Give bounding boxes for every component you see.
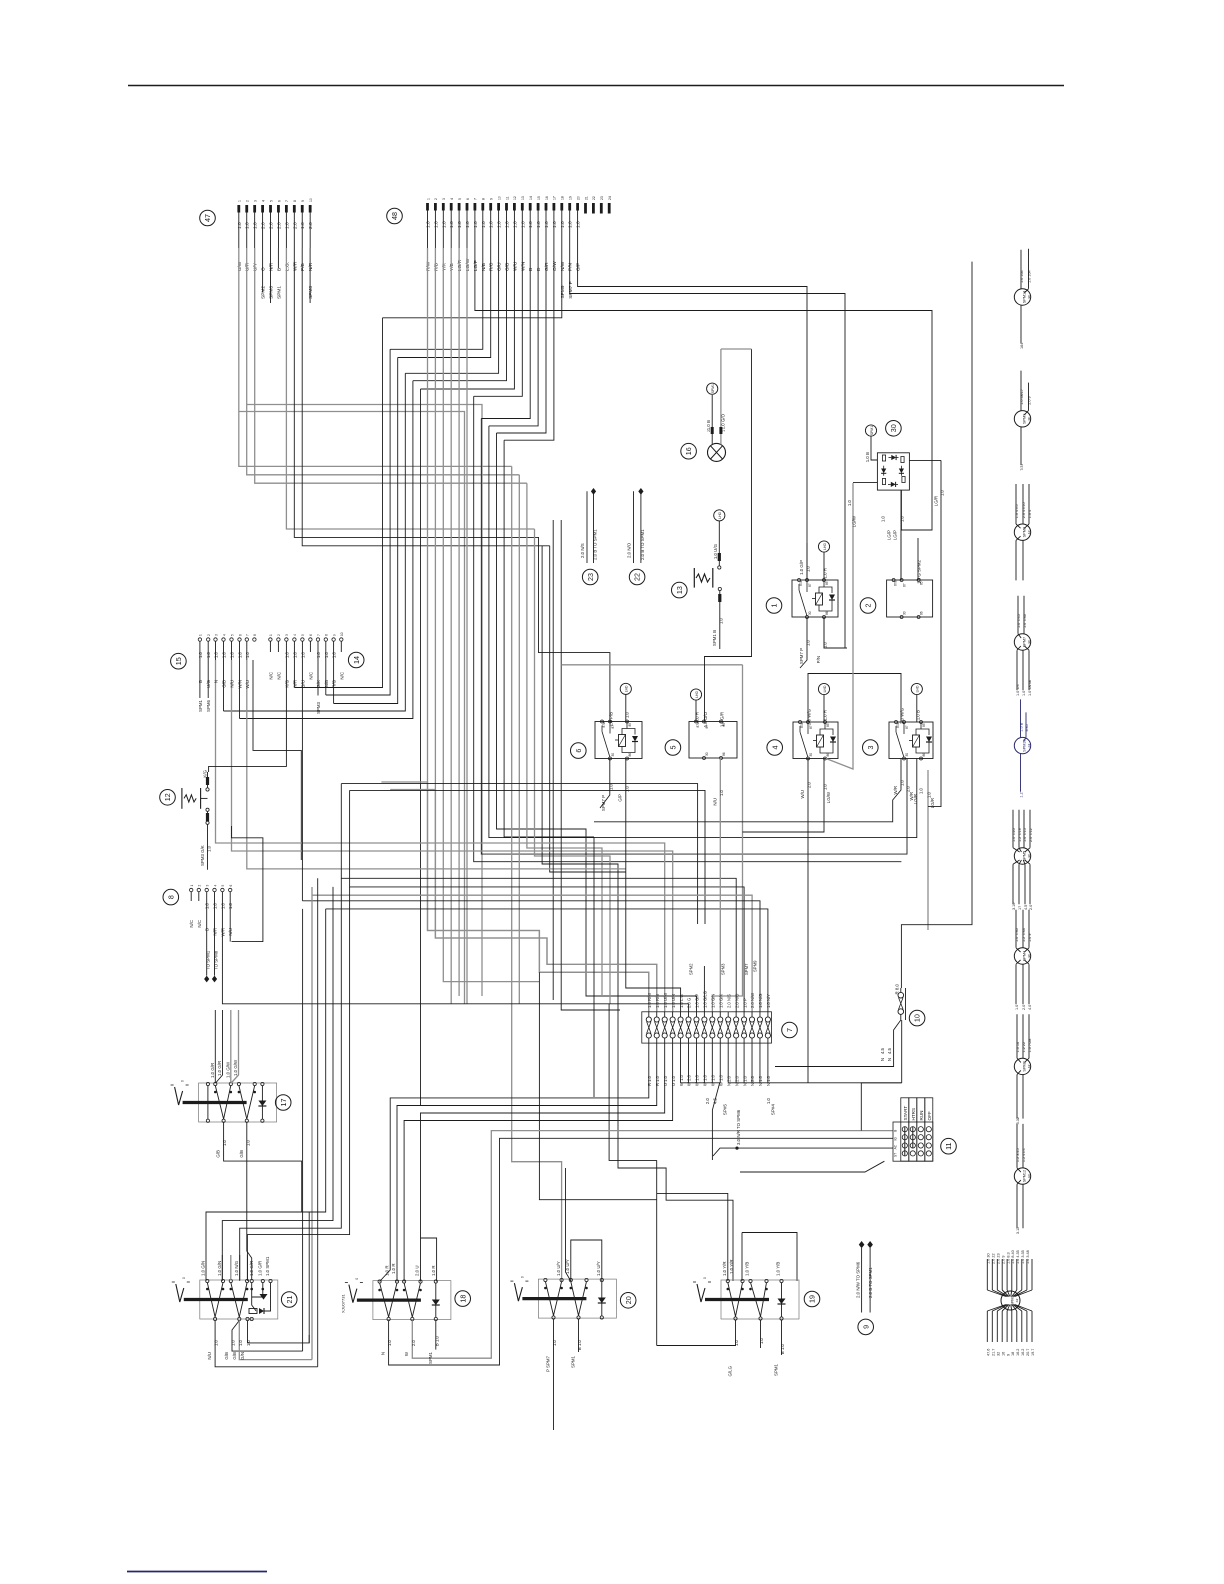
ground 12 jog wire down	[232, 826, 263, 942]
nested loops mid-left going to switches	[341, 784, 697, 924]
svg-text:2.0 U: 2.0 U	[415, 1266, 420, 1277]
svg-text:1.0: 1.0	[220, 902, 225, 909]
svg-text:1.0: 1.0	[316, 651, 321, 658]
svg-text:5: 5	[669, 746, 678, 750]
svg-text:1.0: 1.0	[734, 1339, 739, 1346]
svg-text:1.0 3.48: 1.0 3.48	[1026, 1250, 1030, 1264]
link 9 stubs	[858, 1319, 874, 1335]
svg-text:SPM1: SPM1	[428, 1351, 433, 1364]
svg-text:B 1.0: B 1.0	[780, 1343, 785, 1354]
relay 3 bottom leads W/R	[594, 759, 901, 822]
svg-text:1.0 G SPM2: 1.0 G SPM2	[917, 559, 922, 583]
svg-text:1.0: 1.0	[718, 617, 723, 624]
svg-text:3.0 N/R TO SPM6: 3.0 N/R TO SPM6	[736, 1109, 741, 1145]
connector 14	[348, 652, 364, 668]
svg-text:1.0: 1.0	[576, 221, 582, 228]
svg-text:87: 87	[808, 583, 812, 587]
svg-text:10: 10	[913, 1014, 922, 1022]
svg-text:1.0: 1.0	[457, 221, 463, 228]
svg-text:6: 6	[466, 198, 470, 200]
svg-text:1.0: 1.0	[441, 221, 447, 228]
fuse strip 7 fuse elements	[646, 1017, 651, 1022]
svg-text:2.0: 2.0	[906, 785, 911, 792]
svg-text:G/K: G/K	[316, 680, 321, 688]
bundle slot 6	[428, 248, 649, 1012]
svg-text:1.0: 1.0	[206, 651, 211, 658]
svg-text:1: 1	[190, 885, 194, 887]
svg-text:13: 13	[675, 586, 684, 594]
svg-text:O: O	[261, 267, 267, 271]
svg-text:1.0 G/N: 1.0 G/N	[711, 994, 716, 1008]
svg-text:7: 7	[317, 634, 321, 636]
svg-text:2: 2	[864, 604, 873, 608]
svg-text:LHD: LHD	[718, 511, 722, 518]
svg-text:20: 20	[624, 1296, 633, 1304]
svg-text:17: 17	[279, 1099, 288, 1107]
svg-text:1.0: 1.0	[900, 779, 905, 786]
svg-text:13: 13	[521, 196, 525, 200]
svg-text:1.0 Y/B: 1.0 Y/B	[745, 1262, 750, 1276]
svg-text:1.0: 1.0	[927, 791, 932, 798]
svg-text:10: 10	[497, 196, 501, 200]
svg-text:1.2 47/4: 1.2 47/4	[1022, 1148, 1026, 1162]
svg-text:START: START	[903, 1106, 908, 1121]
svg-text:3: 3	[285, 634, 289, 636]
wire 48-18 N/W into bundle	[383, 248, 562, 318]
svg-text:8: 8	[325, 634, 329, 636]
svg-text:5: 5	[458, 198, 462, 200]
relay 2 top lead LG/P	[900, 490, 902, 580]
svg-text:1.0 7/45: 1.0 7/45	[1017, 614, 1021, 628]
svg-text:2.0 G: 2.0 G	[687, 998, 692, 1008]
wire 48-8 N/B into bundle	[390, 248, 483, 349]
svg-text:85: 85	[825, 581, 829, 585]
svg-text:1.0: 1.0	[332, 651, 337, 658]
svg-text:Y/R: Y/R	[441, 262, 447, 271]
svg-text:W 1.0: W 1.0	[711, 1074, 716, 1086]
svg-text:1.0: 1.0	[253, 222, 259, 229]
svg-text:1.0 U/R: 1.0 U/R	[671, 994, 676, 1008]
bundle slot 14	[489, 426, 917, 838]
svg-text:SPM7 P: SPM7 P	[568, 281, 574, 299]
svg-text:R/W: R/W	[426, 261, 432, 271]
svg-text:N 1.0: N 1.0	[742, 1075, 747, 1086]
svg-text:1.0 7/20: 1.0 7/20	[1012, 828, 1016, 842]
svg-text:1.0: 1.0	[940, 489, 945, 496]
link 22	[629, 569, 645, 585]
svg-text:1.0 SPM1: 1.0 SPM1	[265, 1256, 270, 1276]
svg-text:1: 1	[199, 634, 203, 636]
svg-text:SPM4: SPM4	[1022, 951, 1026, 961]
switch 21 diode branch	[252, 1283, 256, 1311]
svg-text:SPM7: SPM7	[744, 963, 749, 975]
svg-text:1.0 G/K: 1.0 G/K	[718, 994, 723, 1008]
splice SPM4	[1014, 948, 1030, 964]
ignition bottom-left diagonal	[740, 1161, 884, 1172]
svg-text:1.0 3.35: 1.0 3.35	[1021, 1250, 1025, 1264]
splice SPM13	[1014, 289, 1030, 305]
svg-text:1.0: 1.0	[292, 651, 297, 658]
svg-text:7: 7	[474, 198, 478, 200]
svg-text:3: 3	[442, 198, 446, 200]
switch 18	[349, 1285, 357, 1303]
bundle slot 11	[466, 248, 468, 1004]
ground 12 upper connector	[201, 797, 208, 799]
wire from 775 down	[774, 1066, 776, 1068]
svg-text:47.6: 47.6	[987, 1349, 991, 1356]
svg-text:U/G: U/G	[206, 679, 211, 687]
svg-text:HTRS: HTRS	[911, 1108, 916, 1121]
svg-text:0: 0	[182, 1277, 186, 1279]
svg-text:1.0: 1.0	[719, 789, 724, 796]
relay 1 top leads	[806, 543, 808, 580]
svg-text:B: B	[205, 928, 210, 931]
svg-text:Y/B: Y/B	[449, 263, 455, 271]
splice SPM9	[1014, 411, 1030, 427]
svg-text:4.0: 4.0	[1028, 1005, 1032, 1010]
svg-text:N: N	[880, 1058, 885, 1061]
wire 47-2 U/R	[247, 248, 520, 475]
svg-text:3: 3	[214, 634, 218, 636]
wire 47-9 P/B	[302, 248, 550, 546]
svg-text:1.0 48/38: 1.0 48/38	[1028, 680, 1032, 696]
svg-text:6: 6	[229, 885, 233, 887]
bundle slot 19	[527, 483, 602, 996]
splice SPM8	[1014, 524, 1030, 540]
svg-text:2.0: 2.0	[411, 1339, 416, 1346]
svg-text:4.5: 4.5	[880, 1047, 885, 1054]
svg-text:K/G: K/G	[203, 769, 208, 777]
svg-text:2.0 7/12: 2.0 7/12	[1029, 828, 1033, 842]
fusible link 10 lower wires	[775, 1014, 901, 1066]
wire 47-10 N/R stub SPM8	[309, 248, 311, 303]
svg-text:4dr: 4dr	[1027, 854, 1031, 858]
svg-text:N/R: N/R	[308, 262, 314, 271]
svg-text:N/C: N/C	[268, 672, 273, 680]
svg-text:N/C: N/C	[276, 672, 281, 680]
svg-text:1.0 8.40: 1.0 8.40	[1011, 1250, 1015, 1264]
svg-text:2.0 B TO SPM1: 2.0 B TO SPM1	[868, 1267, 873, 1298]
svg-text:85: 85	[826, 723, 830, 727]
svg-text:LHD: LHD	[695, 691, 699, 698]
svg-text:14: 14	[352, 656, 361, 664]
svg-text:R 1.0: R 1.0	[647, 1075, 652, 1086]
svg-text:30: 30	[808, 611, 812, 615]
bundle slot 21	[542, 546, 733, 1281]
svg-text:N/W: N/W	[560, 261, 566, 271]
svg-text:30: 30	[809, 753, 813, 757]
svg-text:2.0: 2.0	[1022, 1005, 1026, 1010]
svg-text:SPM12: SPM12	[1022, 1170, 1026, 1182]
connector 8 W/R long wire	[222, 910, 688, 1012]
svg-text:18: 18	[458, 1295, 467, 1303]
svg-text:1.0: 1.0	[231, 1339, 236, 1346]
extra verticals flanking relay 6	[552, 520, 554, 1000]
svg-text:8: 8	[482, 198, 486, 200]
svg-text:G/B: G/B	[224, 1352, 229, 1360]
svg-text:1.0 G/W: 1.0 G/W	[225, 1061, 230, 1078]
relay 6 (leftmost)	[595, 722, 642, 759]
svg-text:1.0: 1.0	[624, 785, 629, 792]
svg-text:N/C: N/C	[189, 920, 194, 928]
svg-text:N/U: N/U	[713, 798, 718, 806]
svg-text:1.0 U/W: 1.0 U/W	[663, 993, 668, 1008]
svg-text:2.0 N/O: 2.0 N/O	[627, 542, 632, 558]
svg-text:9: 9	[861, 1325, 870, 1329]
svg-text:1.0: 1.0	[489, 221, 495, 228]
link 23	[582, 569, 598, 585]
module 30 bottom-right lead LG/P down to relay2	[900, 490, 902, 530]
relay 1 LHD circle	[818, 541, 829, 552]
svg-text:LG/R: LG/R	[457, 259, 463, 271]
svg-text:1.0 164: 1.0 164	[1020, 270, 1024, 283]
svg-text:1.0 U/Y: 1.0 U/Y	[556, 1261, 561, 1276]
svg-text:4dr: 4dr	[1027, 640, 1031, 644]
svg-text:B: B	[528, 268, 534, 271]
bundle slot 7	[435, 248, 656, 1012]
svg-text:1.0: 1.0	[568, 221, 574, 228]
svg-text:2.0 N/W TO SPM6: 2.0 N/W TO SPM6	[856, 1261, 861, 1298]
svg-text:8: 8	[293, 200, 297, 202]
svg-text:22: 22	[592, 196, 596, 200]
resistor 13 lower wire with connector	[718, 587, 721, 590]
relay 2 85 stub G SPM2	[917, 538, 919, 580]
svg-text:1.0: 1.0	[536, 221, 542, 228]
svg-text:1.0: 1.0	[919, 787, 924, 794]
svg-text:9/85: 9/85	[1025, 724, 1029, 731]
wire 47-1 U/W	[239, 248, 512, 466]
splice SPM7	[1014, 634, 1030, 650]
bundle slot 5	[420, 389, 422, 1106]
svg-text:1.0: 1.0	[246, 1339, 251, 1346]
svg-text:4: 4	[222, 634, 226, 636]
svg-text:19.7: 19.7	[1031, 1349, 1035, 1356]
svg-text:SPM1: SPM1	[1010, 1295, 1014, 1305]
gray feeds across middle	[216, 660, 665, 1012]
svg-text:1.0 G/LG: 1.0 G/LG	[703, 991, 708, 1008]
svg-text:SPM8: SPM8	[308, 286, 314, 299]
svg-text:1.0 164: 1.0 164	[1028, 270, 1032, 283]
svg-text:SPM9: SPM9	[1022, 414, 1026, 424]
svg-text:2.0 B TO SPM1: 2.0 B TO SPM1	[640, 529, 645, 560]
svg-text:2.0 9: 2.0 9	[1028, 396, 1032, 404]
svg-text:W/U: W/U	[245, 680, 250, 689]
svg-text:LG/R: LG/R	[913, 794, 918, 804]
svg-text:1: 1	[238, 200, 242, 202]
svg-text:7: 7	[285, 200, 289, 202]
svg-text:N 2.0: N 2.0	[734, 1075, 739, 1086]
svg-text:LG/R: LG/R	[934, 496, 939, 506]
svg-text:87: 87	[905, 725, 909, 729]
svg-text:2: 2	[198, 885, 202, 887]
wire 48-16 G/R into bundle	[497, 248, 547, 433]
switch 19 bottom wires	[657, 1320, 736, 1346]
svg-text:11: 11	[944, 1142, 953, 1149]
svg-text:1.0: 1.0	[608, 783, 613, 790]
svg-text:W/N: W/N	[520, 261, 526, 271]
svg-text:30: 30	[889, 424, 898, 432]
svg-text:G/P: G/P	[618, 794, 623, 802]
svg-text:SPM1: SPM1	[870, 426, 874, 435]
svg-text:7/37: 7/37	[1020, 463, 1024, 470]
svg-text:W/U: W/U	[512, 261, 518, 271]
svg-text:SPM3 G/K: SPM3 G/K	[200, 845, 205, 866]
svg-text:1.0 R: 1.0 R	[391, 1264, 396, 1275]
svg-text:1.0 G/R: 1.0 G/R	[217, 1061, 222, 1076]
svg-text:2.0: 2.0	[276, 222, 282, 229]
svg-text:1.0 G/R: 1.0 G/R	[257, 1261, 262, 1276]
svg-text:U 1.0: U 1.0	[671, 1075, 676, 1086]
svg-text:1.0 N/Y: 1.0 N/Y	[766, 994, 771, 1008]
module 30 right lead	[909, 459, 941, 461]
svg-text:6: 6	[277, 200, 281, 202]
switch 20 diode	[601, 1282, 603, 1317]
svg-text:1.0: 1.0	[449, 221, 455, 228]
svg-text:AC: AC	[894, 1144, 898, 1149]
svg-text:1.0: 1.0	[433, 221, 439, 228]
svg-text:1: 1	[770, 604, 779, 608]
svg-text:G/N: G/N	[240, 1352, 245, 1360]
svg-text:SPM1 B: SPM1 B	[712, 630, 717, 646]
svg-text:3: 3	[253, 200, 257, 202]
svg-text:86: 86	[722, 752, 726, 756]
svg-text:U/R: U/R	[245, 262, 251, 271]
svg-text:4dr: 4dr	[1027, 954, 1031, 958]
svg-text:4dr: 4dr	[1027, 530, 1031, 534]
svg-text:1.0: 1.0	[207, 845, 212, 852]
svg-text:1.2 7/19: 1.2 7/19	[1018, 828, 1022, 842]
connector 47 header circle	[200, 210, 216, 226]
svg-text:1.0: 1.0	[806, 639, 811, 646]
svg-text:1.0: 1.0	[497, 221, 503, 228]
wire 48-13 W/N into bundle	[474, 248, 523, 396]
svg-text:2.0 22: 2.0 22	[992, 1253, 996, 1264]
svg-text:ST: ST	[894, 1153, 898, 1157]
svg-text:SPM7 P: SPM7 P	[601, 795, 606, 811]
svg-text:2.0 B TO SPM1: 2.0 B TO SPM1	[593, 529, 598, 560]
switch 17 bottom wires G/B	[224, 1122, 302, 1212]
svg-text:21: 21	[584, 196, 588, 200]
svg-text:W 1.0: W 1.0	[695, 1074, 700, 1086]
svg-text:1.0 4.35: 1.0 4.35	[1016, 1250, 1020, 1264]
svg-text:1.0 G/P: 1.0 G/P	[799, 560, 804, 575]
svg-text:2.0: 2.0	[1029, 905, 1033, 910]
svg-text:10: 10	[340, 632, 344, 636]
svg-text:P/N: P/N	[816, 656, 821, 663]
svg-text:1.0 R/B: 1.0 R/B	[655, 994, 660, 1008]
connector 48 header circle	[387, 208, 403, 224]
svg-text:0: 0	[703, 1277, 707, 1279]
svg-text:N/B: N/B	[324, 680, 329, 687]
svg-text:LG/P: LG/P	[887, 530, 892, 540]
svg-text:12: 12	[163, 793, 172, 801]
svg-text:2.0: 2.0	[261, 222, 267, 229]
svg-text:3: 3	[206, 885, 210, 887]
wire 48-12 W/U into bundle	[421, 248, 515, 389]
svg-text:1.2 3.45: 1.2 3.45	[1016, 1148, 1020, 1162]
sw19 top loop	[741, 1233, 743, 1282]
svg-text:1.0: 1.0	[552, 1339, 557, 1346]
svg-text:G/U: G/U	[497, 262, 503, 271]
bundle slot 18	[518, 475, 520, 1004]
connector 8	[163, 889, 179, 905]
svg-text:2.0 23: 2.0 23	[997, 1253, 1001, 1264]
svg-text:G/LG: G/LG	[728, 1365, 733, 1376]
svg-text:1.0 U/G: 1.0 U/G	[713, 543, 718, 559]
svg-text:12: 12	[513, 196, 517, 200]
module 30 bottom-left lead to LG/W	[853, 482, 877, 484]
lamp 16 SPM1 terminator circle	[707, 383, 718, 394]
svg-text:1.0: 1.0	[512, 221, 518, 228]
bundle slot 15	[497, 433, 697, 1012]
svg-text:15: 15	[174, 657, 183, 665]
svg-text:1.0: 1.0	[284, 222, 290, 229]
svg-text:1.0: 1.0	[1015, 1005, 1019, 1010]
connector 8 N/U wire	[229, 910, 231, 942]
svg-text:W/N: W/N	[238, 680, 243, 689]
svg-text:11: 11	[505, 196, 509, 200]
svg-text:1.0: 1.0	[473, 221, 479, 228]
svg-text:87a: 87a	[894, 580, 898, 586]
svg-text:1: 1	[426, 198, 430, 200]
svg-text:B: B	[276, 268, 282, 271]
svg-text:LG/P: LG/P	[473, 260, 479, 271]
bottom reference line (navy)	[127, 1571, 267, 1573]
relay 5 top leads	[695, 700, 697, 722]
svg-text:W/R: W/R	[292, 261, 298, 271]
svg-text:1.0 B: 1.0 B	[706, 420, 711, 430]
svg-text:G/B: G/B	[505, 263, 511, 271]
svg-text:1.0 P: 1.0 P	[742, 998, 747, 1008]
bundle slot 3	[224, 373, 406, 711]
svg-text:1.0 G/N: 1.0 G/N	[201, 1261, 206, 1276]
svg-text:N: N	[887, 1058, 892, 1061]
svg-text:1.0 R: 1.0 R	[431, 1266, 436, 1277]
svg-text:1.0: 1.0	[426, 221, 432, 228]
svg-text:2.0 N/S: 2.0 N/S	[726, 994, 731, 1008]
svg-text:86: 86	[920, 611, 924, 615]
svg-text:5: 5	[269, 200, 273, 202]
svg-text:R/O: R/O	[489, 262, 495, 271]
svg-text:2.0: 2.0	[269, 222, 275, 229]
svg-text:N: N	[214, 680, 219, 683]
lamp 16 G/O wire to vertical x751	[721, 348, 752, 350]
wire 48-15 D into bundle	[489, 248, 538, 426]
svg-text:SPM2: SPM2	[1022, 1061, 1026, 1071]
svg-text:N/R: N/R	[292, 680, 297, 688]
svg-text:23: 23	[600, 196, 604, 200]
fuse strip 7 body	[642, 1012, 772, 1043]
svg-text:N/C: N/C	[197, 920, 202, 928]
svg-text:16: 16	[684, 447, 693, 455]
svg-text:LHD: LHD	[823, 685, 827, 692]
svg-text:N/R: N/R	[213, 928, 218, 936]
svg-text:P/N: P/N	[568, 262, 574, 271]
svg-text:20: 20	[576, 196, 580, 200]
svg-text:B: B	[894, 1130, 898, 1132]
svg-text:1: 1	[269, 634, 273, 636]
svg-text:87a: 87a	[799, 580, 803, 586]
svg-text:1.0: 1.0	[387, 1339, 392, 1346]
svg-text:2: 2	[277, 634, 281, 636]
svg-text:G/P: G/P	[576, 263, 582, 271]
svg-text:1.0: 1.0	[222, 1139, 227, 1146]
svg-text:1.0 B: 1.0 B	[915, 710, 920, 720]
svg-text:N: N	[381, 1352, 386, 1355]
svg-text:1.0 R: 1.0 R	[695, 712, 700, 723]
svg-text:3.10: 3.10	[1012, 903, 1016, 910]
long vertical x941 upper	[940, 460, 942, 466]
